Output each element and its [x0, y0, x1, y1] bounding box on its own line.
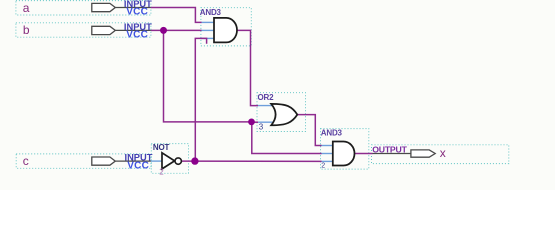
svg-text:VCC: VCC [126, 7, 148, 18]
svg-text:OUTPUT: OUTPUT [372, 144, 407, 154]
svg-text:AND3: AND3 [321, 129, 343, 138]
svg-text:AND3: AND3 [200, 8, 222, 17]
svg-text:NOT: NOT [153, 143, 170, 152]
svg-text:VCC: VCC [127, 160, 149, 171]
svg-text:VCC: VCC [126, 30, 148, 41]
svg-text:OR2: OR2 [258, 93, 275, 102]
svg-text:2: 2 [321, 163, 325, 170]
svg-text:a: a [23, 1, 30, 15]
svg-text:c: c [23, 154, 29, 168]
svg-text:3: 3 [259, 122, 264, 131]
svg-text:x: x [440, 146, 446, 160]
svg-text:2: 2 [159, 168, 164, 177]
svg-text:b: b [23, 23, 30, 37]
